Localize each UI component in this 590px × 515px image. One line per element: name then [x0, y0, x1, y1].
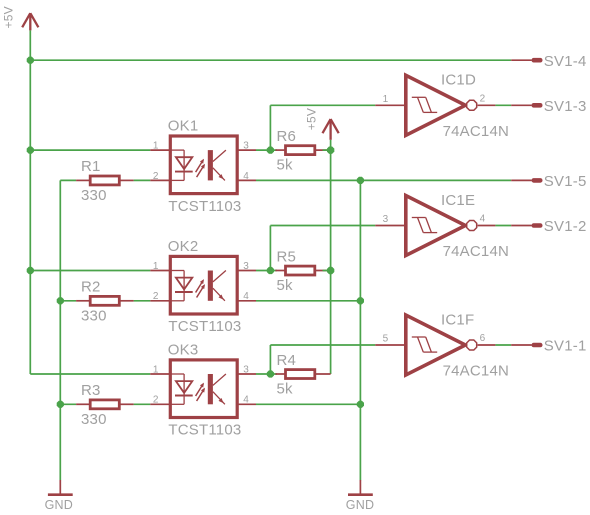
wire node link vertical 1	[269, 105, 271, 150]
svg-text:74AC14N: 74AC14N	[443, 243, 509, 260]
optocoupler OK2 TCST1103	[150, 238, 256, 335]
wire inverter output	[495, 104, 511, 106]
wire OK2 pin4 to gnd rail	[256, 300, 360, 302]
svg-text:3: 3	[243, 261, 249, 272]
inverter IC1E 74AC14N	[375, 192, 509, 260]
wire IC1D input horizontal	[270, 104, 375, 106]
inverter IC1D 74AC14N	[375, 72, 509, 140]
ground	[346, 480, 374, 512]
svg-text:330: 330	[81, 411, 107, 428]
junction	[357, 401, 364, 408]
junction node C	[267, 370, 274, 377]
svg-text:4: 4	[480, 214, 486, 225]
svg-text:1: 1	[383, 94, 389, 105]
junction node A	[267, 147, 274, 154]
resistor R5	[275, 248, 330, 294]
wire OK2 pin3 to R5 node	[256, 270, 277, 272]
resistor R6	[275, 128, 330, 174]
wire +5V left rail vertical	[29, 30, 31, 374]
svg-text:1: 1	[153, 141, 159, 152]
wire node link vertical 2	[269, 226, 271, 271]
wire OK1 pin1 feed	[30, 149, 150, 151]
svg-text:R6: R6	[277, 128, 297, 145]
wire OK3 pin3 to R4 node	[256, 373, 277, 375]
svg-text:GND: GND	[45, 498, 73, 512]
wire inverter output	[495, 344, 511, 346]
connector pin SV1-4	[511, 53, 586, 70]
svg-text:R5: R5	[277, 248, 297, 265]
svg-text:3: 3	[243, 141, 249, 152]
svg-text:74AC14N: 74AC14N	[443, 123, 509, 140]
svg-text:TCST1103: TCST1103	[168, 318, 241, 335]
resistor R2	[76, 279, 134, 325]
svg-text:4: 4	[243, 171, 249, 182]
junction	[27, 57, 34, 64]
svg-text:5k: 5k	[277, 381, 294, 398]
wire R2 left feed	[60, 300, 76, 302]
svg-text:2: 2	[153, 291, 159, 302]
svg-text:R2: R2	[81, 279, 101, 296]
resistor R3	[76, 382, 134, 428]
optocoupler OK3 TCST1103	[150, 342, 256, 439]
wire GND left rail	[59, 180, 61, 480]
svg-text:5: 5	[383, 334, 389, 345]
svg-text:3: 3	[243, 364, 249, 375]
inverter IC1F 74AC14N	[375, 311, 509, 379]
wire IC1E input horizontal	[270, 225, 375, 227]
wire R2 to OK2 pin2	[134, 300, 151, 302]
svg-text:2: 2	[480, 93, 486, 104]
+5V supply P2	[304, 108, 338, 140]
junction	[57, 401, 64, 408]
wire OK2 pin1 feed	[30, 270, 150, 272]
svg-text:SV1-2: SV1-2	[544, 218, 587, 235]
wire R5 right to rail	[323, 270, 331, 272]
svg-text:3: 3	[383, 214, 389, 225]
svg-text:5k: 5k	[277, 157, 294, 174]
junction	[327, 147, 334, 154]
svg-text:R4: R4	[277, 352, 297, 369]
svg-text:IC1F: IC1F	[441, 311, 474, 328]
wire R3 left feed	[60, 403, 76, 405]
resistor R1	[76, 158, 134, 204]
svg-text:4: 4	[243, 291, 249, 302]
svg-text:+5V: +5V	[2, 6, 16, 28]
junction	[327, 267, 334, 274]
wire GND mid rail vertical	[359, 180, 361, 480]
svg-text:SV1-4: SV1-4	[544, 53, 587, 70]
svg-text:TCST1103: TCST1103	[168, 198, 241, 215]
junction	[327, 147, 334, 154]
junction	[27, 267, 34, 274]
svg-text:SV1-1: SV1-1	[544, 338, 587, 355]
svg-text:TCST1103: TCST1103	[168, 422, 241, 439]
svg-text:5k: 5k	[277, 277, 294, 294]
svg-text:R1: R1	[81, 158, 101, 175]
wire +5V mid rail vertical	[330, 140, 332, 374]
svg-text:SV1-5: SV1-5	[544, 173, 587, 190]
svg-text:4: 4	[243, 395, 249, 406]
svg-text:330: 330	[81, 307, 107, 324]
connector pin SV1-2	[511, 218, 586, 235]
junction	[357, 177, 364, 184]
wire R1 left feed	[60, 179, 76, 181]
svg-text:OK2: OK2	[168, 238, 199, 255]
svg-text:74AC14N: 74AC14N	[443, 363, 509, 380]
wire inverter output	[495, 225, 511, 227]
wire node link vertical 3	[269, 345, 271, 374]
svg-text:R3: R3	[81, 382, 101, 399]
svg-text:1: 1	[153, 364, 159, 375]
junction	[327, 267, 334, 274]
resistor R4	[275, 352, 330, 398]
svg-text:2: 2	[153, 171, 159, 182]
svg-text:+5V: +5V	[304, 108, 318, 130]
wire R6 right to rail	[323, 149, 331, 151]
connector pin SV1-5	[511, 173, 586, 190]
junction node B	[267, 267, 274, 274]
+5V supply P1	[2, 6, 39, 30]
svg-text:2: 2	[153, 395, 159, 406]
svg-text:IC1E: IC1E	[441, 192, 475, 209]
junction	[27, 147, 34, 154]
optocoupler OK1 TCST1103	[150, 118, 256, 215]
svg-text:OK1: OK1	[168, 118, 199, 135]
junction	[57, 297, 64, 304]
ground	[45, 480, 73, 512]
svg-text:IC1D: IC1D	[441, 72, 476, 89]
svg-text:GND: GND	[346, 498, 374, 512]
connector pin SV1-1	[511, 338, 586, 355]
wire top rail to SV1-4	[30, 59, 511, 61]
svg-text:1: 1	[153, 261, 159, 272]
svg-text:SV1-3: SV1-3	[544, 98, 587, 115]
svg-text:330: 330	[81, 187, 107, 204]
wire OK3 pin4 to gnd rail	[256, 403, 360, 405]
wire OK1 pin4 to SV1-5	[256, 179, 511, 181]
wire OK3 pin1 feed	[30, 373, 150, 375]
wire OK1 pin3 to R6 node	[256, 149, 277, 151]
wire IC1F input horizontal	[270, 344, 375, 346]
svg-text:OK3: OK3	[168, 342, 199, 359]
connector pin SV1-3	[511, 98, 586, 115]
wire R3 to OK3 pin2	[134, 403, 151, 405]
junction	[357, 297, 364, 304]
svg-text:6: 6	[480, 333, 486, 344]
wire R1 to OK1 pin2	[134, 179, 151, 181]
